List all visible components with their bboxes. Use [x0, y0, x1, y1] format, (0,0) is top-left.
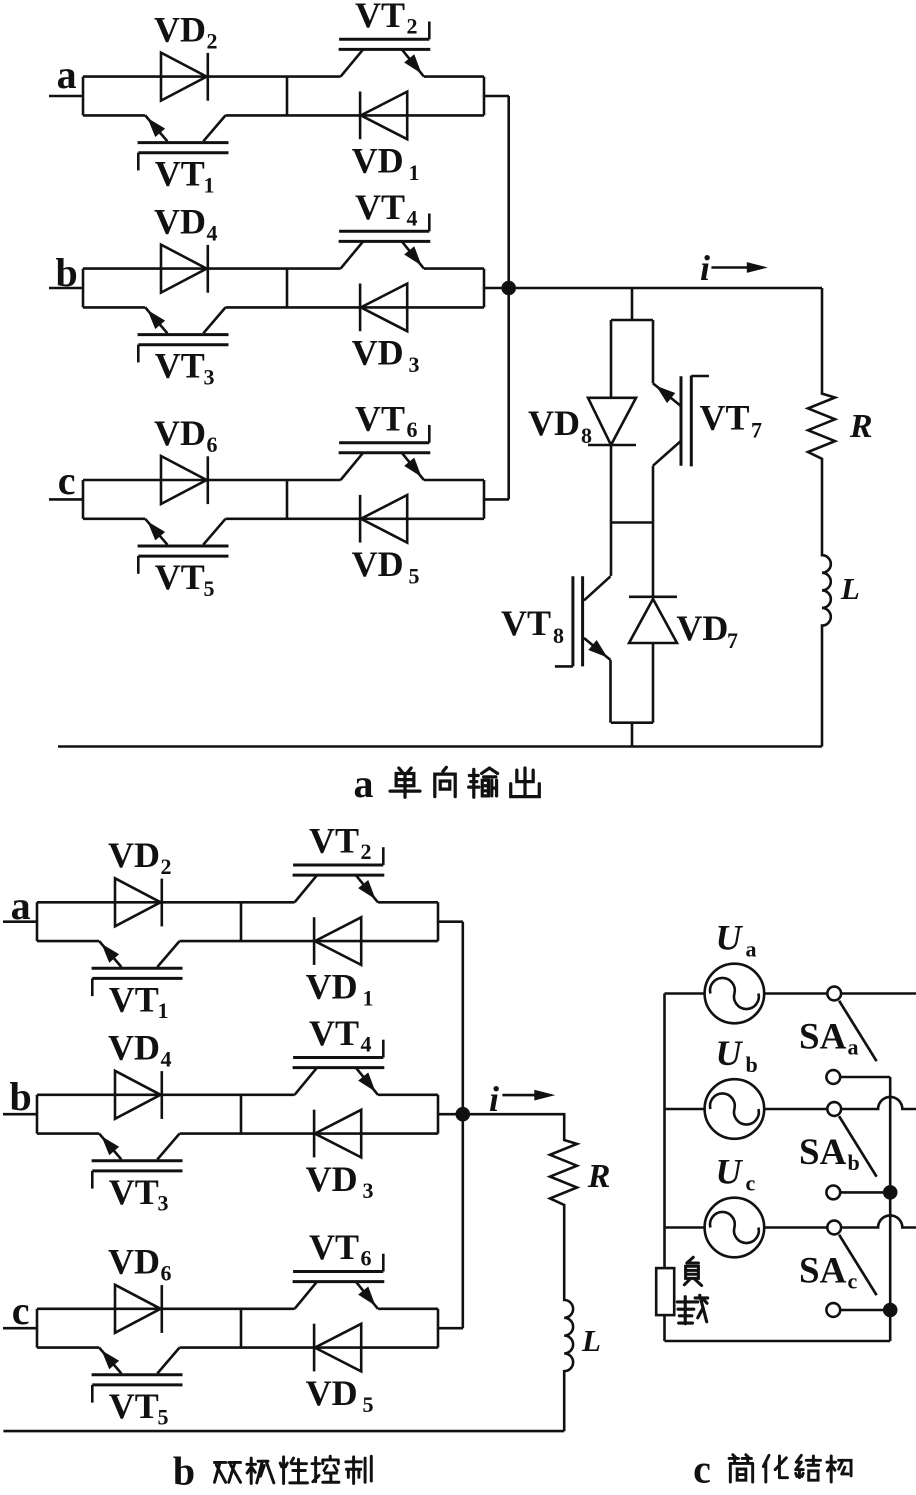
svg-text:c: c: [693, 1447, 711, 1492]
svg-text:SA: SA: [799, 1132, 847, 1173]
svg-text:VT: VT: [501, 603, 551, 643]
svg-text:b: b: [746, 1052, 758, 1077]
svg-text:R: R: [587, 1158, 611, 1195]
svg-text:VD: VD: [352, 333, 404, 373]
svg-text:4: 4: [407, 206, 418, 231]
svg-text:a: a: [57, 52, 77, 97]
svg-text:VT: VT: [109, 1386, 159, 1426]
svg-text:VT: VT: [109, 979, 159, 1019]
svg-text:VT: VT: [355, 0, 405, 35]
svg-text:VT: VT: [355, 398, 405, 438]
svg-text:VD: VD: [108, 1028, 160, 1068]
svg-text:VD: VD: [306, 1373, 358, 1413]
svg-text:c: c: [746, 1171, 756, 1196]
svg-text:VD: VD: [154, 413, 206, 453]
svg-text:VT: VT: [700, 398, 750, 438]
svg-text:c: c: [58, 458, 76, 503]
svg-text:1: 1: [158, 998, 169, 1023]
svg-text:5: 5: [158, 1405, 169, 1430]
svg-text:VT: VT: [309, 821, 359, 861]
svg-text:a: a: [354, 761, 374, 806]
svg-text:VD: VD: [352, 141, 404, 181]
svg-text:4: 4: [361, 1032, 372, 1057]
svg-text:7: 7: [727, 628, 738, 653]
svg-text:7: 7: [751, 418, 762, 443]
svg-text:c: c: [12, 1288, 30, 1333]
svg-text:VD: VD: [352, 544, 404, 584]
svg-text:b: b: [9, 1074, 31, 1119]
svg-text:VD: VD: [154, 10, 206, 50]
svg-text:1: 1: [409, 160, 420, 185]
svg-text:8: 8: [553, 623, 564, 648]
svg-text:L: L: [581, 1323, 601, 1358]
svg-text:4: 4: [161, 1047, 172, 1072]
svg-text:i: i: [700, 248, 710, 288]
svg-text:3: 3: [409, 352, 420, 377]
svg-text:VD: VD: [676, 608, 728, 648]
svg-text:2: 2: [361, 839, 372, 864]
svg-text:b: b: [55, 250, 77, 295]
svg-text:a: a: [848, 1034, 859, 1059]
svg-text:b: b: [848, 1150, 860, 1175]
svg-text:a: a: [11, 883, 31, 928]
svg-text:VT: VT: [155, 154, 205, 194]
svg-text:3: 3: [158, 1191, 169, 1216]
svg-text:5: 5: [204, 576, 215, 601]
svg-text:2: 2: [407, 14, 418, 39]
svg-text:VD: VD: [108, 835, 160, 875]
svg-text:5: 5: [409, 563, 420, 588]
svg-text:VD: VD: [154, 202, 206, 242]
svg-text:VT: VT: [309, 1013, 359, 1053]
svg-text:6: 6: [161, 1261, 172, 1286]
svg-text:VD: VD: [306, 966, 358, 1006]
svg-text:SA: SA: [799, 1016, 847, 1057]
svg-text:U: U: [716, 1033, 744, 1073]
svg-text:SA: SA: [799, 1250, 847, 1291]
svg-text:U: U: [716, 918, 744, 958]
svg-text:L: L: [840, 571, 860, 606]
svg-text:6: 6: [361, 1246, 372, 1271]
svg-text:b: b: [173, 1449, 195, 1494]
svg-text:VD: VD: [108, 1242, 160, 1282]
svg-text:3: 3: [363, 1178, 374, 1203]
svg-text:R: R: [849, 408, 873, 445]
svg-text:VT: VT: [109, 1172, 159, 1212]
svg-text:c: c: [848, 1268, 858, 1293]
svg-text:4: 4: [207, 221, 218, 246]
svg-text:1: 1: [204, 173, 215, 198]
svg-text:8: 8: [581, 423, 592, 448]
svg-text:U: U: [716, 1152, 744, 1192]
svg-text:VD: VD: [528, 403, 580, 443]
svg-text:6: 6: [407, 417, 418, 442]
svg-text:VT: VT: [355, 187, 405, 227]
svg-text:VT: VT: [155, 557, 205, 597]
svg-text:5: 5: [363, 1392, 374, 1417]
svg-text:3: 3: [204, 365, 215, 390]
svg-text:a: a: [746, 937, 757, 962]
svg-text:2: 2: [207, 29, 218, 54]
svg-text:VT: VT: [155, 346, 205, 386]
svg-text:VD: VD: [306, 1159, 358, 1199]
svg-text:6: 6: [207, 432, 218, 457]
svg-text:VT: VT: [309, 1227, 359, 1267]
svg-text:1: 1: [363, 986, 374, 1011]
svg-text:2: 2: [161, 854, 172, 879]
